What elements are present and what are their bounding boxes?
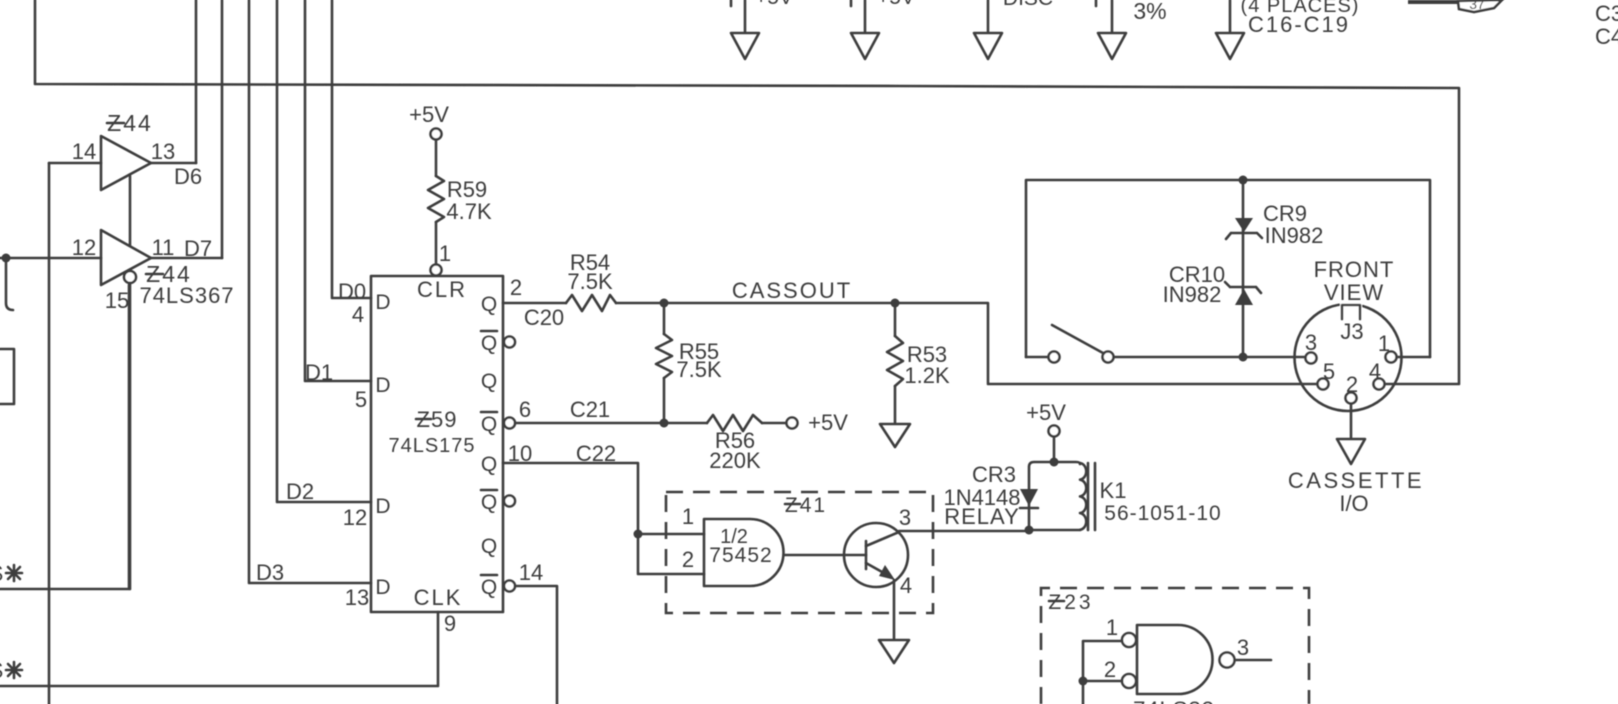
svg-text:CASSETTE: CASSETTE — [1288, 468, 1424, 493]
svg-text:+5V: +5V — [1026, 400, 1066, 425]
svg-text:4: 4 — [1369, 359, 1381, 384]
svg-text:D: D — [375, 374, 390, 397]
svg-text:56-1051-10: 56-1051-10 — [1104, 502, 1221, 525]
svg-text:D: D — [375, 291, 390, 314]
svg-text:I/O: I/O — [1339, 491, 1368, 516]
svg-text:1: 1 — [439, 241, 451, 266]
svg-text:220K: 220K — [709, 448, 761, 473]
svg-text:D1: D1 — [305, 360, 333, 385]
svg-text:1: 1 — [1378, 331, 1390, 356]
svg-text:CR3: CR3 — [972, 462, 1016, 487]
svg-text:IN982: IN982 — [1163, 282, 1222, 307]
svg-text:Q: Q — [481, 332, 497, 355]
svg-text:Z23: Z23 — [1048, 591, 1093, 614]
svg-text:CASSOUT: CASSOUT — [732, 278, 852, 303]
svg-text:CLR: CLR — [417, 277, 467, 302]
svg-text:4: 4 — [352, 302, 364, 327]
svg-text:7.5K: 7.5K — [676, 357, 722, 382]
svg-text:74LS367: 74LS367 — [139, 283, 234, 308]
svg-text:D2: D2 — [286, 479, 314, 504]
svg-text:14: 14 — [72, 139, 96, 164]
svg-text:4.7K: 4.7K — [446, 199, 492, 224]
svg-text:3: 3 — [1237, 635, 1249, 660]
svg-text:1: 1 — [682, 504, 694, 529]
svg-text:K1: K1 — [1100, 478, 1127, 503]
svg-text:15: 15 — [105, 288, 129, 313]
svg-text:C3: C3 — [1595, 1, 1618, 26]
svg-text:3%: 3% — [1133, 0, 1166, 24]
svg-text:D6: D6 — [174, 164, 202, 189]
svg-text:6: 6 — [519, 397, 531, 422]
svg-text:D: D — [375, 495, 390, 518]
svg-text:1.2K: 1.2K — [904, 363, 950, 388]
svg-text:Q: Q — [481, 453, 497, 476]
svg-text:9: 9 — [444, 611, 456, 636]
svg-text:Q: Q — [481, 413, 497, 436]
svg-text:+5V: +5V — [877, 0, 915, 9]
svg-text:S: S — [0, 561, 3, 586]
svg-text:74LS175: 74LS175 — [388, 435, 475, 457]
svg-text:+5V: +5V — [808, 410, 848, 435]
svg-text:2: 2 — [1104, 657, 1116, 682]
svg-text:2: 2 — [1346, 372, 1358, 397]
svg-text:D3: D3 — [256, 560, 284, 585]
svg-text:J3: J3 — [1340, 319, 1363, 344]
svg-text:Q: Q — [481, 576, 497, 599]
svg-text:2: 2 — [510, 275, 522, 300]
svg-text:5: 5 — [1323, 359, 1335, 384]
svg-text:IN982: IN982 — [1265, 223, 1324, 248]
svg-text:11: 11 — [152, 235, 175, 260]
svg-text:3: 3 — [1305, 330, 1317, 355]
svg-text:1: 1 — [1106, 615, 1118, 640]
svg-text:+5V: +5V — [409, 102, 449, 127]
svg-text:Q: Q — [481, 491, 497, 514]
svg-text:C4: C4 — [1595, 24, 1618, 49]
svg-text:13: 13 — [345, 585, 369, 610]
svg-text:12: 12 — [72, 235, 96, 260]
svg-text:D7: D7 — [184, 236, 212, 261]
svg-text:DISC: DISC — [1003, 0, 1053, 10]
svg-text:D: D — [375, 576, 390, 599]
svg-text:5: 5 — [355, 387, 367, 412]
svg-text:C20: C20 — [524, 305, 564, 330]
svg-text:37: 37 — [1469, 0, 1485, 12]
svg-text:C16-C19: C16-C19 — [1248, 12, 1350, 37]
svg-text:74LS32: 74LS32 — [1133, 697, 1215, 704]
svg-text:Z41: Z41 — [785, 494, 827, 517]
svg-text:+5V: +5V — [755, 0, 793, 9]
svg-text:C21: C21 — [570, 397, 610, 422]
svg-text:14: 14 — [519, 560, 543, 585]
svg-text:12: 12 — [343, 505, 367, 530]
svg-text:Q: Q — [481, 370, 497, 393]
svg-text:2: 2 — [682, 547, 694, 572]
svg-text:7.5K: 7.5K — [567, 269, 613, 294]
svg-text:3: 3 — [899, 505, 911, 530]
svg-text:RELAY: RELAY — [944, 504, 1020, 529]
svg-text:75452: 75452 — [709, 544, 772, 567]
svg-text:CLK: CLK — [414, 585, 463, 610]
svg-text:S: S — [0, 658, 3, 683]
svg-text:13: 13 — [151, 139, 175, 164]
svg-text:VIEW: VIEW — [1324, 280, 1384, 305]
svg-text:Q: Q — [481, 535, 497, 558]
svg-text:D0: D0 — [338, 279, 366, 304]
svg-text:4: 4 — [900, 573, 912, 598]
svg-text:FRONT: FRONT — [1314, 257, 1395, 282]
svg-text:Q: Q — [481, 293, 497, 316]
